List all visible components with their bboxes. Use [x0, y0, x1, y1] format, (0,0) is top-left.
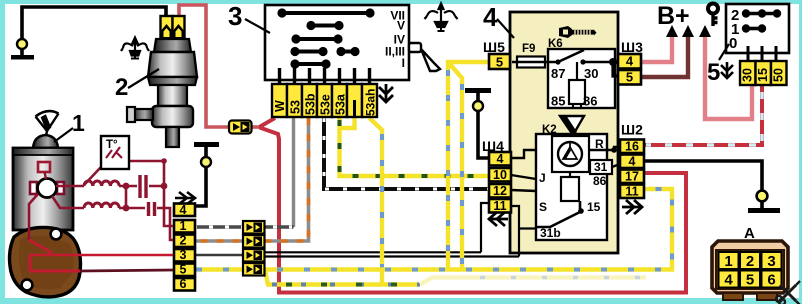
housing bolt holes	[51, 229, 62, 240]
pump bottom tube	[166, 127, 179, 147]
wire: gray from terminal 53 down to motor pin 1 row	[292, 118, 295, 227]
Ш2 pin boxes 16,4,17,11	[620, 140, 644, 199]
pump housing	[152, 106, 193, 127]
labels: ignition terminals 30 15 50 (rotated)	[741, 68, 786, 82]
svg-text:F9: F9	[522, 43, 535, 55]
svg-text:4: 4	[180, 203, 187, 217]
wire: motor pin3 stub to inline connector	[193, 254, 243, 257]
svg-text:T°: T°	[106, 139, 118, 151]
node: junction dot near Ш3 pin 4	[609, 58, 617, 66]
labels: Ш4 pins	[493, 152, 507, 213]
icon: washer spray symbol near switch	[425, 4, 458, 32]
svg-text:1: 1	[180, 219, 187, 233]
node: ground bolt circle right	[757, 191, 768, 202]
svg-text:4: 4	[626, 54, 634, 69]
ignition switch item 5 box	[726, 4, 789, 85]
switch contact row I	[290, 59, 330, 68]
wire: 53b gray-orange vertical to motor pin 2 row	[193, 118, 309, 241]
ground: mounting block ground above Ш4	[465, 88, 491, 158]
K2 left wires from Ш4	[511, 150, 536, 158]
ignition contact row 2	[742, 9, 781, 17]
svg-text:10: 10	[493, 168, 507, 182]
labels: motor connector pins 4,1,2,3,5,6	[180, 203, 187, 291]
K2 coil	[569, 172, 571, 177]
capacitor C2 plates	[149, 202, 155, 216]
K6 coil	[576, 62, 578, 80]
switch pin stubs	[280, 68, 370, 84]
K2 wire to pin 16	[589, 147, 620, 150]
switch contact row IV	[291, 34, 342, 43]
wire: fuse feed from Ш5 pin5 to relay K6 (black)	[508, 60, 548, 63]
svg-text:A: A	[744, 225, 755, 242]
svg-text:86: 86	[583, 94, 597, 109]
wire: washer pump ground (black, top left)	[22, 7, 166, 55]
icon: wiper symbol near switch	[409, 43, 440, 71]
svg-text:B+: B+	[657, 2, 690, 30]
gear housing brown	[10, 227, 81, 297]
svg-text:Ш5: Ш5	[483, 39, 505, 55]
labels: Ш3 pins	[626, 54, 634, 85]
icon: scissors bottom right	[776, 281, 800, 304]
svg-text:53e: 53e	[319, 94, 333, 115]
ignition pin stubs	[748, 46, 776, 61]
choke L1 loops	[84, 181, 119, 186]
parking switch in gear housing (red)	[29, 240, 173, 271]
svg-text:2: 2	[180, 234, 187, 248]
wire: left brush down to parking switch	[29, 194, 38, 240]
connector symbol (double chevron down) right of strip	[379, 84, 393, 102]
svg-text:12: 12	[493, 184, 507, 198]
labels: switch terminal strip (rotated)	[273, 89, 378, 116]
svg-text:15: 15	[756, 68, 770, 82]
svg-text:4: 4	[497, 152, 504, 166]
Ш3 pin boxes 4,5	[618, 54, 641, 85]
washer pump item 2	[127, 16, 197, 147]
labels: connector A pins	[724, 253, 775, 289]
wire: red from terminal W down and along bottom to connector Ш2 pin 17	[261, 118, 686, 293]
svg-text:R: R	[595, 137, 604, 151]
K2 S contact	[536, 201, 582, 227]
svg-text:85: 85	[551, 94, 565, 109]
svg-text:0: 0	[729, 35, 737, 52]
wire: motor pin5 long yellow-blue row to Ш2 pin 11	[195, 189, 672, 270]
wiper switch U3 box	[265, 5, 409, 84]
wire: 53a + spare terminal yellow-green down to Ш4 pin 10 row	[340, 118, 490, 176]
svg-text:53b: 53b	[304, 93, 318, 115]
wiper motor item 1 with gear housing	[10, 135, 81, 297]
labels: Ш2 pins	[625, 140, 639, 199]
wire: Ш5 pin 5 yellow-blue pair going down (V1,V2)	[448, 62, 489, 270]
labels: roman numerals of switch positions	[385, 9, 405, 71]
motor internal: armature circle and brushes	[30, 182, 64, 194]
wire: motor pin1 row gray with white dashes	[193, 225, 294, 229]
wire: K6 output to Ш3 pins 4 and 5 (black)	[613, 62, 620, 76]
K6 contact	[548, 50, 615, 62]
terminal strip of switch 3 (W,53,53b,53e,53a,-,53ah)	[272, 84, 377, 117]
pump band	[148, 77, 197, 85]
ground: top-left ground bar	[11, 55, 34, 60]
wire: parking-switch wires risers to Ш4 pin 11 and relay S	[481, 203, 536, 257]
wire: motor pin3 twin black runs to parking-switch risers	[264, 252, 519, 256]
svg-text:4: 4	[724, 272, 733, 289]
svg-text:53a: 53a	[334, 93, 348, 115]
svg-text:3: 3	[228, 1, 242, 31]
wiper motor connector column pins 4,1,2,3,5,6	[174, 204, 195, 291]
svg-text:K6: K6	[548, 38, 563, 50]
svg-text:53: 53	[289, 100, 303, 114]
wire: 53e black with white dashes to connector Ш4 pin 12	[324, 118, 489, 189]
capacitor C1 plates	[140, 175, 146, 198]
wire: ignition 15 red-white dashed down to Ш2 pin 16 row	[644, 85, 762, 145]
svg-text:4: 4	[483, 2, 498, 32]
chevron symbol above motor pin 4	[175, 192, 195, 204]
svg-text:J: J	[539, 171, 546, 185]
switch contact row V	[306, 21, 343, 30]
wire: bottom run with choke L2 and capacitor C2 to pin 2	[52, 196, 84, 208]
svg-text:K2: K2	[542, 124, 557, 136]
svg-text:5: 5	[180, 263, 187, 277]
svg-text:31: 31	[594, 160, 608, 174]
motor internal schematic wires (dark red)	[29, 161, 173, 240]
wire: 53ah yellow-blue vertical down to fast-speed row	[370, 118, 383, 285]
svg-text:4: 4	[629, 155, 636, 169]
wire: Ш3 pin5 dark red to B+ arrow 2	[641, 36, 688, 77]
labels: K6 terminals 87 30 85 86	[551, 66, 598, 109]
wire: link between runs	[125, 186, 128, 208]
pump neck	[158, 85, 187, 106]
svg-text:6: 6	[180, 277, 187, 291]
wire: motor pin6 yellow-green row (fades to pale)	[265, 271, 646, 285]
pump left tube	[133, 109, 153, 120]
choke L2 loops	[84, 203, 119, 208]
relay K6 box	[548, 49, 615, 108]
svg-text:53ah: 53ah	[364, 89, 378, 116]
switch contact row II,III	[290, 47, 359, 56]
svg-text:15: 15	[587, 200, 601, 214]
icon: key horizontal above K6	[559, 26, 597, 38]
svg-text:W: W	[273, 100, 287, 112]
svg-text:5: 5	[496, 55, 503, 70]
wire: Ш3 pin4 pink to B+ arrow 1	[641, 36, 672, 62]
icon: wiper symbol near motor	[36, 111, 59, 136]
junction dots motor schematic	[123, 158, 168, 211]
pump cap	[154, 39, 191, 52]
svg-text:2: 2	[115, 74, 128, 101]
fuse F9	[512, 57, 549, 68]
thermal breaker leads	[85, 161, 164, 186]
svg-text:5: 5	[626, 70, 633, 85]
wire: Ш2 pin 4 black to body ground right side	[644, 161, 762, 190]
svg-text:3: 3	[180, 248, 187, 262]
svg-text:3: 3	[767, 253, 775, 270]
icon: B+ arrows (3 supply arrows)	[666, 25, 711, 37]
K2 motor symbol sub-box	[552, 136, 589, 172]
svg-text:1: 1	[724, 253, 732, 270]
icon: key vertical (near B+)	[708, 4, 718, 27]
chevron symbol below Ш2 pin 11	[622, 200, 642, 214]
svg-text:11: 11	[493, 199, 506, 213]
node: ground bolt circle top-left	[17, 39, 27, 49]
svg-text:16: 16	[625, 140, 639, 154]
inline connector on washer pump wire	[229, 121, 252, 134]
svg-text:17: 17	[625, 170, 639, 184]
icon: double chevron down next to item 5 label	[721, 62, 733, 78]
K2 31 terminal box	[590, 160, 612, 174]
icon: washer spray symbol near pump	[121, 38, 149, 59]
inline connectors stack near motor (4)	[243, 221, 265, 276]
ground: motor local ground with bolt	[194, 142, 219, 206]
pump 2-pin connector	[161, 16, 185, 39]
svg-text:50: 50	[772, 68, 786, 82]
svg-text:30: 30	[741, 68, 755, 82]
svg-text:11: 11	[625, 185, 638, 199]
pump body trapezoid	[148, 52, 197, 77]
motor body	[33, 135, 58, 148]
labels: ignition switch positions 2 1 0	[729, 7, 739, 52]
svg-text:Ш2: Ш2	[621, 122, 643, 138]
svg-text:31b: 31b	[540, 226, 561, 240]
Ш4 pin boxes 4,10,12,11	[489, 152, 511, 213]
svg-text:5: 5	[746, 272, 754, 289]
Ш5 pin 5 box	[489, 54, 510, 69]
ignition terminals 30,15,50	[740, 61, 787, 85]
svg-text:86: 86	[593, 174, 607, 188]
svg-text:30: 30	[584, 66, 598, 81]
svg-text:2: 2	[746, 253, 754, 270]
svg-text:1: 1	[72, 110, 85, 136]
svg-text:V: V	[397, 19, 405, 33]
relay K2 box	[511, 134, 620, 240]
icon: wiper symbol above K2	[560, 116, 584, 135]
svg-text:6: 6	[767, 272, 775, 289]
wire: top run with choke L1 and capacitor C1 to pin 1	[56, 185, 84, 188]
spare terminal stub mark	[353, 100, 356, 117]
thermal breaker T box	[101, 136, 129, 169]
switch contact row VII	[277, 8, 374, 17]
mounting block item 4 (pale yellow)	[510, 12, 618, 253]
ground: right ground bar	[760, 201, 764, 208]
svg-text:87: 87	[551, 66, 565, 81]
labels: K2 internals R 31 86 J S 15 31b	[539, 137, 608, 240]
wire: ignition 30 pink to B+ arrow 3	[705, 36, 752, 119]
wire: washer pump feed (red) from pump to inline connector and terminal W	[179, 5, 262, 127]
svg-text:5: 5	[707, 59, 720, 86]
svg-text:I: I	[402, 56, 405, 70]
connector A (on wiper motor)	[712, 241, 788, 300]
svg-text:S: S	[539, 200, 547, 214]
chevron symbol below Ш4 pin 11	[488, 212, 508, 226]
ignition contact row 1	[742, 24, 766, 32]
